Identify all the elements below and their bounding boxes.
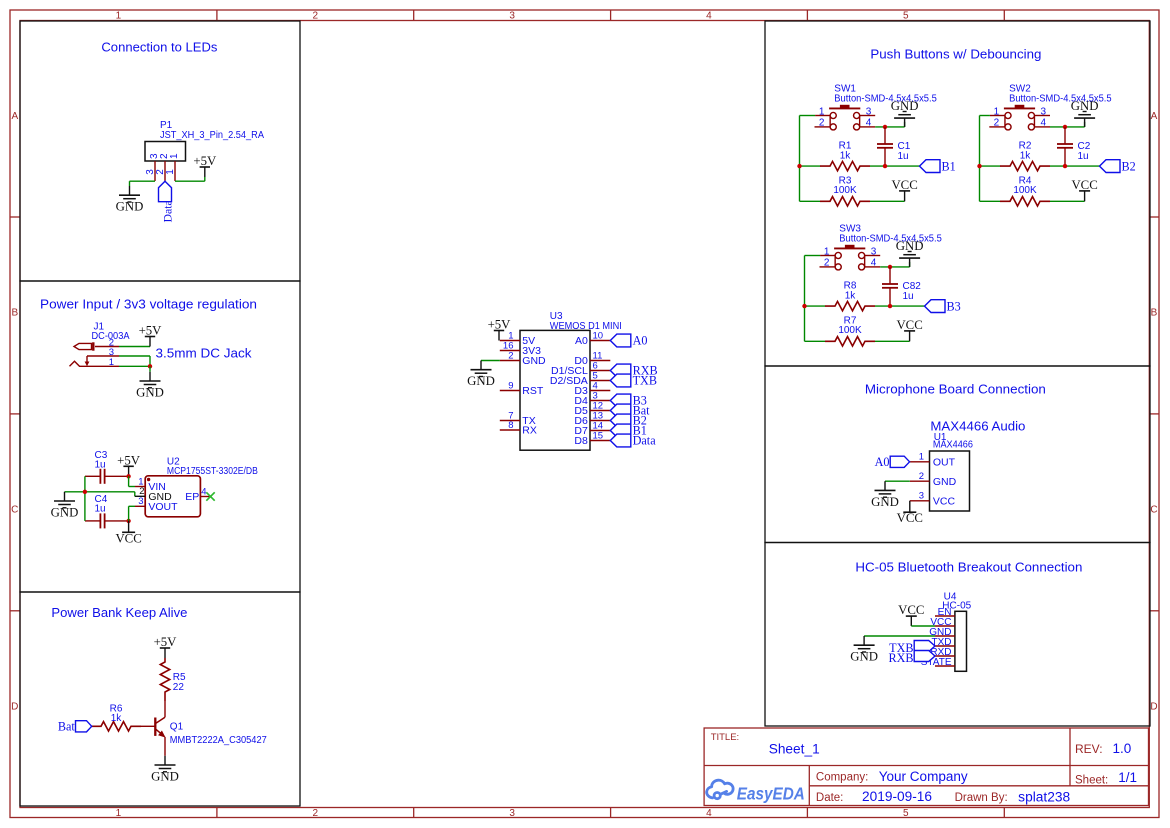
resistor R3 xyxy=(800,200,821,202)
mcu U3 pin 10 A0 xyxy=(590,340,610,342)
section box Connection to LEDs xyxy=(20,21,300,281)
svg-text:A: A xyxy=(11,111,18,122)
wire rail left xyxy=(805,255,821,257)
svg-text:VCC: VCC xyxy=(896,318,922,332)
net flag A0 mic xyxy=(890,456,909,467)
ground symbol GND SW1 xyxy=(904,118,906,127)
svg-text:EP: EP xyxy=(185,491,199,503)
wire jack pin3 down xyxy=(119,355,150,357)
mcu U3 pin 3 D4 xyxy=(590,400,610,402)
svg-text:OUT: OUT xyxy=(933,456,956,468)
svg-text:1k: 1k xyxy=(840,151,852,162)
resistor R1 xyxy=(800,165,821,167)
module U4 pin GND xyxy=(935,635,955,637)
svg-text:2: 2 xyxy=(994,117,1000,128)
svg-text:1u: 1u xyxy=(898,151,909,162)
wire vcc to U4 xyxy=(911,625,935,627)
svg-text:1: 1 xyxy=(116,808,122,819)
svg-text:1: 1 xyxy=(109,357,114,368)
mcu U3 pin 15 D8 xyxy=(590,440,610,442)
svg-text:100K: 100K xyxy=(833,185,857,196)
wire rail left xyxy=(980,115,990,117)
switch SW3 pin 3 xyxy=(865,255,881,257)
ground symbol GND SW2 xyxy=(1084,118,1086,127)
mcu U3 body xyxy=(520,330,590,450)
mcu U3 pin 5 D2/SDA xyxy=(590,380,610,382)
svg-text:GND: GND xyxy=(871,495,899,509)
svg-text:2: 2 xyxy=(313,10,319,21)
mcu U3 pin 6 D1/SCL xyxy=(590,370,610,372)
title block outer xyxy=(704,728,1148,806)
svg-text:1k: 1k xyxy=(1020,151,1032,162)
svg-text:1: 1 xyxy=(116,10,122,21)
no-connect X on EP xyxy=(206,492,214,500)
wire pin4 to gnd xyxy=(1050,126,1085,128)
wire pin3 to GND xyxy=(130,180,156,182)
svg-text:3.5mm DC Jack: 3.5mm DC Jack xyxy=(156,346,253,361)
capacitor C3 xyxy=(85,475,100,477)
section box HC-05 Bluetooth Breakout Connection xyxy=(765,543,1150,727)
svg-text:2: 2 xyxy=(824,257,830,268)
svg-text:B3: B3 xyxy=(947,299,961,313)
wire jack pin2 to +5V xyxy=(119,346,150,348)
regulator U2 body xyxy=(145,476,200,517)
mcu U3 pin 9 RST xyxy=(500,390,520,392)
junction cap bottom xyxy=(888,304,892,308)
svg-text:JST_XH_3_Pin_2.54_RA: JST_XH_3_Pin_2.54_RA xyxy=(160,130,264,141)
mic U1 pin 1 OUT xyxy=(910,461,930,463)
svg-text:1: 1 xyxy=(169,153,180,159)
capacitor C1 xyxy=(884,127,886,144)
power symbol +5V jack xyxy=(149,337,151,347)
connector P1 pin 3 xyxy=(154,161,156,181)
mcu U3 pin 4 D3 xyxy=(590,390,610,392)
svg-text:+5V: +5V xyxy=(154,635,178,649)
svg-text:D: D xyxy=(1150,701,1157,712)
net flag B3 xyxy=(925,300,946,313)
svg-text:C: C xyxy=(1150,505,1157,516)
jack J1 sleeve and pin 1 xyxy=(70,361,120,366)
junction R left xyxy=(797,164,801,168)
mcu U3 pin 14 D7 xyxy=(590,430,610,432)
svg-text:4: 4 xyxy=(866,117,872,128)
svg-text:Power Input / 3v3 voltage regu: Power Input / 3v3 voltage regulation xyxy=(40,296,257,311)
switch SW3 pin 1 xyxy=(820,255,835,257)
ground symbol GND jack xyxy=(149,372,151,381)
svg-text:B: B xyxy=(1151,308,1158,319)
resistor R5 xyxy=(160,658,169,701)
svg-text:Button-SMD-4.5x4.5x5.5: Button-SMD-4.5x4.5x5.5 xyxy=(839,234,942,245)
svg-text:2: 2 xyxy=(919,471,924,482)
svg-text:HC-05 Bluetooth Breakout Conne: HC-05 Bluetooth Breakout Connection xyxy=(855,559,1082,574)
svg-text:Company:: Company: xyxy=(816,771,868,783)
mcu U3 pin 7 TX xyxy=(500,420,520,422)
power symbol +5V U3 xyxy=(498,331,500,341)
junction pin4/cap xyxy=(883,125,887,129)
switch SW1 pin 2 xyxy=(815,126,831,128)
mic U1 pin 3 VCC xyxy=(910,500,930,502)
svg-text:GND: GND xyxy=(151,769,179,783)
wire junction to GND xyxy=(149,366,151,372)
svg-text:8: 8 xyxy=(508,420,513,431)
ground symbol GND SW3 xyxy=(909,258,911,267)
svg-text:1: 1 xyxy=(819,107,825,118)
wire pin4 to gnd xyxy=(880,266,909,268)
svg-text:Bat: Bat xyxy=(58,719,76,733)
svg-text:GND: GND xyxy=(896,239,924,253)
svg-text:Q1: Q1 xyxy=(170,722,184,733)
module U4 pin TXD xyxy=(935,645,955,647)
svg-text:GND: GND xyxy=(51,505,79,519)
switch SW3 pin 4 xyxy=(865,266,881,268)
connector P1 pin 2 xyxy=(164,161,166,181)
svg-text:1: 1 xyxy=(824,247,830,258)
junction C4 right xyxy=(126,519,130,523)
svg-text:GND: GND xyxy=(136,385,164,399)
power symbol VCC SW2 xyxy=(1084,191,1086,201)
svg-text:3: 3 xyxy=(919,491,924,502)
module U4 pin VCC xyxy=(935,625,955,627)
svg-text:22: 22 xyxy=(173,682,185,693)
module U4 pin EN xyxy=(935,615,955,617)
switch SW1 body xyxy=(829,107,860,109)
net flag Bat on U3 xyxy=(610,404,631,417)
svg-text:1u: 1u xyxy=(903,291,914,302)
svg-text:3: 3 xyxy=(866,107,872,118)
svg-text:3: 3 xyxy=(509,10,515,21)
regulator U2 pin 2 GND xyxy=(135,495,145,497)
section box Push Buttons w/ Debouncing xyxy=(765,21,1150,366)
junction cap bottom xyxy=(1063,164,1067,168)
mcu U3 pin 16 3V3 xyxy=(500,350,520,352)
svg-text:VCC: VCC xyxy=(897,511,923,525)
svg-text:A0: A0 xyxy=(633,334,648,348)
junction C3 right xyxy=(126,474,130,478)
mcu U3 pin 8 RX xyxy=(500,429,520,431)
svg-text:3: 3 xyxy=(871,247,877,258)
svg-text:1.0: 1.0 xyxy=(1113,741,1132,756)
svg-text:splat238: splat238 xyxy=(1018,789,1070,804)
regulator U2 pin 3 VOUT xyxy=(135,505,145,507)
net flag Bat xyxy=(76,721,92,732)
svg-text:1k: 1k xyxy=(845,291,857,302)
svg-text:VCC: VCC xyxy=(891,178,917,192)
mic U1 body xyxy=(930,451,970,511)
svg-text:Date:: Date: xyxy=(816,792,844,804)
wire rail left xyxy=(800,115,816,117)
wire R5 to collector xyxy=(164,701,166,717)
power symbol +5V regulator xyxy=(128,466,130,476)
svg-text:1: 1 xyxy=(165,169,176,175)
svg-text:3: 3 xyxy=(509,808,515,819)
svg-text:B: B xyxy=(11,308,18,319)
svg-text:1/1: 1/1 xyxy=(1118,770,1137,785)
svg-text:Microphone Board Connection: Microphone Board Connection xyxy=(865,381,1046,396)
section box Power Input / 3v3 voltage regulation xyxy=(20,281,300,592)
power symbol VCC regulator xyxy=(128,521,130,532)
junction jack xyxy=(148,364,152,368)
svg-text:Push Buttons w/ Debouncing: Push Buttons w/ Debouncing xyxy=(870,47,1041,62)
mcu U3 pin 12 D5 xyxy=(590,410,610,412)
svg-text:VCC: VCC xyxy=(933,495,956,507)
svg-text:1: 1 xyxy=(919,452,924,463)
regulator U2 pin 4 EP xyxy=(200,496,209,498)
svg-text:2: 2 xyxy=(819,117,825,128)
wire U3 GND xyxy=(481,360,500,362)
switch SW2 pin 3 xyxy=(1034,115,1050,117)
regulator U2 pin 1 VIN xyxy=(135,486,145,488)
net flag B1 xyxy=(920,160,941,173)
capacitor C2 xyxy=(1064,127,1066,144)
svg-text:VCC: VCC xyxy=(1071,178,1097,192)
jack J1 plug symbol xyxy=(74,343,92,349)
switch SW3 body xyxy=(834,247,865,249)
svg-text:10: 10 xyxy=(593,331,604,342)
mcu U3 pin 13 D6 xyxy=(590,420,610,422)
net flag B1 on U3 xyxy=(610,424,631,437)
svg-text:1u: 1u xyxy=(95,504,106,515)
svg-text:5: 5 xyxy=(903,808,909,819)
svg-text:VCC: VCC xyxy=(898,603,924,617)
power symbol VCC SW1 xyxy=(904,191,906,201)
svg-text:9: 9 xyxy=(508,381,513,392)
net flag B2 on U3 xyxy=(610,414,631,427)
svg-text:RX: RX xyxy=(522,424,537,436)
switch SW1 pin 4 xyxy=(860,126,876,128)
svg-text:C: C xyxy=(11,505,18,516)
connector P1 body xyxy=(145,142,186,162)
svg-text:1u: 1u xyxy=(1078,151,1089,162)
wire middle GND rail xyxy=(65,491,135,493)
ground symbol GND U3 xyxy=(480,361,482,370)
switch SW2 pin 2 xyxy=(989,126,1005,128)
svg-text:GND: GND xyxy=(933,476,957,488)
svg-text:4: 4 xyxy=(871,257,877,268)
svg-text:Power Bank Keep Alive: Power Bank Keep Alive xyxy=(51,605,187,620)
mcu U3 pin 11 D0 xyxy=(590,360,610,362)
power symbol VCC SW3 xyxy=(909,331,911,341)
svg-text:A0: A0 xyxy=(575,335,588,347)
svg-text:+5V: +5V xyxy=(193,154,217,168)
ground symbol GND hc05 xyxy=(863,636,865,645)
switch SW3 pin 2 xyxy=(820,266,836,268)
junction pin4/cap xyxy=(1063,125,1067,129)
svg-text:+5V: +5V xyxy=(488,318,512,332)
junction cap bottom xyxy=(883,164,887,168)
EasyEDA logo cloud xyxy=(707,780,733,799)
svg-text:Drawn By:: Drawn By: xyxy=(955,792,1008,804)
net flag RXB on U3 xyxy=(610,364,631,377)
mcu U3 pin 1 5V xyxy=(500,340,520,342)
svg-text:15: 15 xyxy=(593,431,604,442)
power symbol +5V box1 xyxy=(204,167,206,177)
section box Power Bank Keep Alive xyxy=(20,592,300,806)
connector P1 pin 1 xyxy=(174,161,176,181)
svg-text:D: D xyxy=(11,701,18,712)
svg-text:2: 2 xyxy=(508,351,513,362)
switch SW1 pin 1 xyxy=(815,115,830,117)
frame column ticks bottom xyxy=(216,808,218,818)
capacitor C82 xyxy=(889,267,891,284)
wire gnd to U4 xyxy=(864,635,935,637)
svg-text:B2: B2 xyxy=(1122,159,1136,173)
wire left rail vertical xyxy=(84,476,86,521)
svg-text:100K: 100K xyxy=(838,325,862,336)
mcu U3 pin 2 GND xyxy=(500,360,520,362)
switch SW2 pin 1 xyxy=(990,115,1005,117)
svg-text:GND: GND xyxy=(891,99,919,113)
resistor R2 xyxy=(980,165,1001,167)
resistor R4 xyxy=(980,200,1001,202)
svg-text:A0: A0 xyxy=(875,455,890,469)
net flag B3 on U3 xyxy=(610,394,631,407)
capacitor C4 xyxy=(85,520,100,522)
svg-text:3: 3 xyxy=(1041,107,1047,118)
junction mid rail xyxy=(83,490,87,494)
svg-text:D8: D8 xyxy=(574,435,588,447)
svg-text:GND: GND xyxy=(467,374,495,388)
svg-text:VCC: VCC xyxy=(115,531,141,545)
svg-text:Connection to LEDs: Connection to LEDs xyxy=(101,40,217,55)
svg-text:1u: 1u xyxy=(95,459,106,470)
svg-text:Data: Data xyxy=(160,199,174,222)
svg-text:4: 4 xyxy=(1041,117,1047,128)
svg-text:+5V: +5V xyxy=(117,453,141,467)
title block lines xyxy=(704,765,1148,767)
net flag Data on U3 xyxy=(610,434,631,447)
svg-text:MAX4466: MAX4466 xyxy=(933,439,973,450)
svg-text:GND: GND xyxy=(116,200,144,214)
svg-text:GND: GND xyxy=(1071,99,1099,113)
ground symbol GND power bank xyxy=(164,756,166,765)
svg-text:Sheet_1: Sheet_1 xyxy=(769,741,820,757)
section box Microphone Board Connection xyxy=(765,366,1150,543)
net flag TXB on U3 xyxy=(610,374,631,387)
switch SW1 pin 3 xyxy=(860,115,876,117)
module U4 pin RXD xyxy=(935,655,955,657)
svg-text:Button-SMD-4.5x4.5x5.5: Button-SMD-4.5x4.5x5.5 xyxy=(834,94,937,105)
junction R left xyxy=(977,164,981,168)
ground symbol GND mic xyxy=(884,481,886,490)
svg-text:4: 4 xyxy=(706,808,712,819)
svg-text:1k: 1k xyxy=(111,713,123,724)
svg-text:1: 1 xyxy=(994,107,1000,118)
net flag Data xyxy=(159,181,172,202)
svg-text:+5V: +5V xyxy=(139,324,163,338)
svg-text:GND: GND xyxy=(850,650,878,664)
svg-text:100K: 100K xyxy=(1013,185,1037,196)
wire +5V to VIN xyxy=(128,476,130,486)
junction pin4/cap xyxy=(888,265,892,269)
ground symbol GND regulator xyxy=(64,492,66,501)
svg-text:Your Company: Your Company xyxy=(879,769,968,784)
wire pin1 to +5V xyxy=(175,180,205,182)
net flag B2 xyxy=(1100,160,1121,173)
resistor R8 xyxy=(805,305,826,307)
svg-text:2019-09-16: 2019-09-16 xyxy=(862,789,932,804)
wire mic GND xyxy=(885,480,910,482)
svg-text:TXB: TXB xyxy=(633,374,657,388)
svg-text:TITLE:: TITLE: xyxy=(711,732,740,743)
jack J1 pin 3 with arrow xyxy=(87,355,119,357)
module U4 pin STATE xyxy=(935,665,955,667)
svg-text:4: 4 xyxy=(706,10,712,21)
svg-text:5: 5 xyxy=(903,10,909,21)
svg-text:4: 4 xyxy=(201,487,206,498)
net flag RXB xyxy=(914,651,935,662)
module U4 body xyxy=(955,611,967,671)
svg-text:A: A xyxy=(1151,111,1158,122)
frame column ticks top xyxy=(216,10,218,21)
frame row ticks right xyxy=(1149,216,1159,218)
svg-text:B1: B1 xyxy=(942,159,956,173)
svg-text:REV:: REV: xyxy=(1075,742,1103,756)
net flag A0 on U3 xyxy=(610,334,631,347)
svg-text:3: 3 xyxy=(138,496,143,507)
svg-text:GND: GND xyxy=(522,355,546,367)
resistor R7 xyxy=(805,340,826,342)
transistor Q1 xyxy=(154,718,156,736)
power symbol VCC mic xyxy=(909,501,911,512)
net flag TXB xyxy=(914,641,935,652)
svg-text:RXB: RXB xyxy=(888,651,913,665)
jack J1 pin 2 xyxy=(95,346,119,348)
resistor R6 xyxy=(92,725,100,727)
svg-text:Data: Data xyxy=(633,434,657,448)
svg-text:EasyEDA: EasyEDA xyxy=(737,784,805,804)
svg-text:Sheet:: Sheet: xyxy=(1075,774,1108,786)
junction R left xyxy=(802,304,806,308)
wire pin4 to gnd xyxy=(875,126,904,128)
switch SW2 pin 4 xyxy=(1034,126,1050,128)
svg-text:VOUT: VOUT xyxy=(148,501,178,513)
frame row ticks left xyxy=(10,216,20,218)
svg-text:RST: RST xyxy=(522,385,544,397)
wire VOUT to VCC rail xyxy=(128,506,130,521)
power symbol +5V power bank xyxy=(164,648,166,658)
ground symbol GND box1 xyxy=(129,186,131,195)
mic U1 pin 2 GND xyxy=(910,480,930,482)
wire jack pin1 xyxy=(119,365,150,367)
switch SW2 body xyxy=(1004,107,1035,109)
svg-text:2: 2 xyxy=(313,808,319,819)
svg-text:MMBT2222A_C305427: MMBT2222A_C305427 xyxy=(170,735,267,746)
